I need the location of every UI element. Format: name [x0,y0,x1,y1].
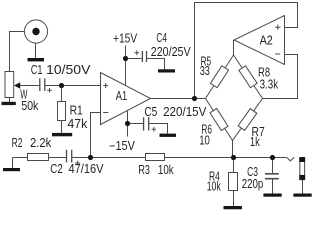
capacitor C3 wiring [272,158,274,194]
A1 + marker [103,83,108,88]
svg-text:R3: R3 [138,163,150,177]
ground (jack) [28,58,45,61]
svg-text:R2: R2 [12,136,23,150]
capacitor C5 plates [144,117,149,130]
capacitor C2 plates [67,150,72,163]
wire bridge bottom to output rail [232,141,234,158]
wire node to R4 [233,158,235,173]
resistor R6 body [210,109,228,131]
ground (plug) [293,194,311,197]
resistor R3 body [146,154,165,161]
ground (C4) [158,69,175,72]
bottom rail: node to R3 to output [91,157,287,159]
C1 + marker [47,88,52,93]
jack center pin [32,28,39,35]
svg-text:50k: 50k [21,99,38,113]
ground (C5) [160,134,177,137]
op-amp A1 [101,73,151,125]
pot wiper arrow [14,82,20,89]
wire pot bottom to ground [9,98,11,103]
bridge arm wires [206,55,263,141]
C5 + marker [152,127,156,132]
node -15V [125,121,130,126]
resistor R2 body [28,154,49,161]
node bridge bottom [231,155,236,160]
wire jack to pot top [10,32,25,72]
wire C1 to A1 + input [45,85,100,87]
output connector zigzag [287,157,295,161]
wire A2 output down to bridge top [233,40,235,55]
node feedback [88,155,93,160]
svg-text:220p: 220p [242,177,263,191]
A2 + marker [275,25,280,30]
ground (C3) [263,194,281,197]
wire +15V rail to A1 [125,46,127,86]
capacitor C1 plates [40,78,45,91]
svg-text:R1: R1 [70,104,83,118]
svg-text:1k: 1k [250,135,260,149]
potentiometer P1 body [5,72,14,98]
svg-text:10k: 10k [207,179,222,193]
svg-text:A1: A1 [116,89,127,103]
node C3 [270,155,275,160]
wire R2 left to ground [12,158,14,169]
svg-text:3.3k: 3.3k [260,77,279,91]
capacitor C4 wiring [126,59,165,70]
resistor R5 body [210,66,228,88]
svg-text:A2: A2 [260,33,273,47]
svg-text:10: 10 [199,134,210,148]
ground (R2) [3,168,20,171]
svg-text:C1: C1 [31,63,43,77]
ground (pot) [2,102,16,105]
svg-text:47k: 47k [67,117,88,131]
C2 + marker [75,161,80,166]
wire jack to ground [35,43,37,58]
svg-text:10k: 10k [158,163,174,177]
wire A1 V- pin down [127,111,129,137]
wire A2 - input to bridge right [263,55,298,99]
wire A2 + loop: top rail [195,3,298,99]
wire R4 to ground [233,191,235,207]
wire A1 output to bridge [151,98,206,100]
svg-text:C2: C2 [50,162,63,176]
node C1/R1/A1 [59,83,64,88]
resistor R4 body [229,173,238,191]
svg-text:2.2k: 2.2k [30,136,52,150]
svg-text:33: 33 [200,64,210,78]
svg-text:+15V: +15V [113,32,138,46]
ground (R1) [52,133,72,136]
svg-text:47/16V: 47/16V [69,162,105,176]
node A1 out / A2 + [192,96,197,101]
bottom rail: R2/C2 to A1 - node [13,157,91,159]
A1 - marker [103,112,108,114]
output plug body [300,158,305,180]
wire node to R1 [61,86,63,102]
svg-text:C5: C5 [144,105,157,119]
C4 + marker [134,50,139,55]
resistor R8 body [239,66,257,88]
capacitor C4 plates [142,51,146,62]
resistor R1 body [58,102,66,121]
svg-text:C4: C4 [156,31,167,45]
wire R1 to ground [61,121,63,134]
output plug caps [299,157,305,162]
svg-text:220/25V: 220/25V [151,45,191,59]
op-amp A2 [234,16,285,65]
svg-text:220/15V: 220/15V [163,105,207,119]
wire plug to ground [302,180,304,194]
A2 - marker [275,53,280,55]
node +15V [123,56,128,61]
capacitor C5 wiring [128,124,168,134]
ground (R4) [224,206,242,209]
input jack J1 [24,20,47,43]
wire wiper to C1 [20,85,39,87]
svg-text:−15V: −15V [109,139,135,153]
wire A1 - input feedback [91,113,101,158]
resistor R7 body [238,109,257,131]
capacitor C3 plates [265,174,279,179]
svg-text:10/50V: 10/50V [46,63,91,77]
